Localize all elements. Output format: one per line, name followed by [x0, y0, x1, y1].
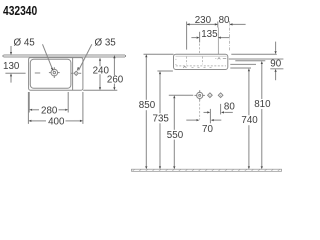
dim 80 lower	[220, 104, 222, 115]
tap centerline tick	[199, 32, 201, 43]
vertical dim 850	[145, 57, 147, 100]
hidden bowl dashes	[176, 57, 226, 66]
rail bottom right ref segment	[270, 68, 283, 70]
dim 260	[113, 57, 115, 75]
svg-text:70: 70	[202, 124, 213, 135]
tick at 217.8 and down line	[217, 22, 219, 28]
tick at 186.6 and down line	[186, 22, 188, 50]
svg-text:735: 735	[152, 113, 169, 124]
angle valve symbol 2	[218, 93, 223, 98]
wall strip (plan view back ledge)	[3, 55, 126, 57]
ext line basin top left	[144, 53, 174, 55]
drain mark	[183, 66, 186, 68]
basin inner rim line	[176, 55, 227, 57]
towel rail bottom	[230, 63, 256, 65]
svg-text:400: 400	[48, 116, 65, 127]
bottom dots row	[192, 67, 212, 69]
ref tick 810	[235, 60, 265, 62]
svg-text:550: 550	[167, 130, 184, 141]
floor line with hatching	[131, 169, 281, 171]
vertical dim 740	[248, 71, 250, 115]
dim 240	[99, 60, 101, 67]
ext line basin bottom right	[230, 67, 251, 69]
svg-text:740: 740	[241, 115, 258, 126]
svg-text:260: 260	[107, 74, 124, 85]
vertical dim 550	[173, 98, 175, 130]
angle valve symbol 1	[208, 93, 213, 98]
svg-text:80: 80	[219, 15, 230, 26]
dim 280	[28, 92, 30, 113]
ext line basin bottom right	[83, 89, 117, 91]
svg-text:90: 90	[270, 59, 281, 70]
basin front view	[174, 54, 228, 69]
basin outer rect (plan view)	[29, 58, 83, 91]
dash-dot line right ref	[229, 21, 231, 50]
svg-text:Ø 45: Ø 45	[14, 37, 36, 48]
overflow dash	[35, 72, 40, 74]
ext line basin bottom left	[157, 70, 173, 72]
dim 400	[27, 92, 29, 124]
svg-text:130: 130	[3, 61, 20, 72]
tap hole D45	[49, 67, 60, 78]
ext line basin top right	[231, 53, 276, 55]
divider line (deck edge)	[72, 58, 74, 91]
tap hole D35	[71, 71, 81, 75]
drain connection symbol	[194, 90, 204, 100]
towel rail top	[229, 58, 284, 60]
tap hole marks front	[218, 58, 221, 60]
svg-text:80: 80	[224, 102, 235, 113]
svg-text:850: 850	[139, 100, 156, 111]
vertical dim 810	[261, 64, 263, 99]
svg-text:432340: 432340	[3, 5, 37, 18]
bowl inner outline	[30, 59, 71, 88]
dim 70	[199, 100, 201, 120]
svg-text:Ø 35: Ø 35	[95, 37, 117, 48]
connection ext line	[169, 94, 193, 96]
vertical dim 735	[159, 74, 161, 113]
interior left dots	[175, 59, 176, 64]
svg-text:135: 135	[201, 29, 218, 40]
svg-text:810: 810	[254, 99, 271, 110]
svg-text:280: 280	[41, 105, 58, 116]
